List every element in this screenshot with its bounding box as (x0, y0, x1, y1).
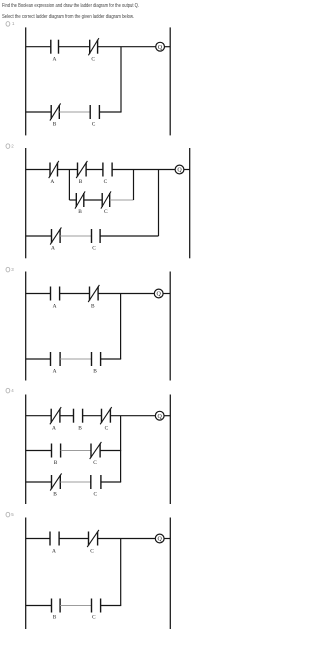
wire C to junction (option 4 rung 2) (100, 450, 121, 452)
svg-text:A: A (52, 548, 56, 554)
wire coil to right rail (option 3) (163, 293, 170, 295)
wire B to C gray (option 5 rung 2) (60, 605, 91, 607)
branch vertical wire down to rung 2 (option 2) (68, 170, 70, 201)
svg-text:Q: Q (158, 414, 163, 420)
wire coil to right rail (option 5) (164, 538, 170, 540)
contact B (NC) option 3 rung 1 (88, 285, 99, 310)
svg-text:A: A (52, 57, 56, 63)
wire rail to contact A (option 1 rung 1) (26, 46, 51, 48)
svg-text:B: B (53, 492, 57, 498)
contact B (NO) option 4 rung 2 (52, 444, 61, 467)
svg-text:C: C (92, 245, 96, 251)
riser vertical wire rung 3 to rung 1 (option 2) (158, 170, 160, 237)
svg-text:A: A (51, 245, 55, 251)
svg-text:Q: Q (158, 45, 163, 51)
contact C (NC) option 4 rung 1 (100, 407, 112, 431)
svg-text:Select the correct ladder diag: Select the correct ladder diagram from t… (2, 14, 134, 20)
contact A (NC) option 4 rung 1 (50, 407, 61, 431)
contact B (NO) option 3 rung 2 (92, 352, 101, 375)
contact B (NC) option 2 rung 1 (76, 161, 87, 185)
radio button option 1 (6, 21, 15, 26)
wire B to C gray (option 1 rung 2) (59, 111, 90, 113)
svg-text:C: C (91, 57, 95, 63)
output coil Q option 4 (155, 411, 164, 420)
wire coil to right rail (option 1) (165, 46, 171, 48)
contact A (NO) option 1 rung 1 (51, 40, 59, 63)
svg-text:Q: Q (157, 292, 162, 298)
radio button option 4 (6, 388, 14, 393)
contact B (NO) option 5 rung 2 (52, 599, 61, 621)
svg-text:B: B (78, 425, 82, 431)
right power rail option 1 (169, 27, 171, 135)
wire C to junction (option 1 rung 2) (99, 111, 121, 113)
left power rail option 2 (25, 148, 27, 258)
wire A to C gray (option 2 rung 3) (60, 235, 91, 237)
wire B to C (option 2 rung 1) (86, 169, 103, 171)
contact A (NC) option 2 rung 3 (50, 227, 61, 251)
svg-text:C: C (92, 122, 96, 128)
radio button option 3 (6, 267, 14, 272)
contact A (NO) option 3 rung 1 (51, 287, 60, 310)
svg-text:B: B (53, 122, 57, 128)
output coil Q option 5 (155, 534, 164, 543)
wire coil to right rail (option 4) (164, 415, 170, 417)
svg-text:B: B (93, 369, 97, 375)
contact C (NO) option 5 rung 2 (92, 599, 101, 621)
wire rail to contact A (option 5 rung 1) (26, 538, 50, 540)
svg-text:A: A (53, 369, 57, 375)
contact A (NO) option 3 rung 2 (51, 352, 61, 375)
contact C (NO) option 2 rung 3 (92, 229, 101, 251)
wire A to B gray (option 3 rung 2) (60, 358, 91, 360)
wire rail to contact A (option 2 rung 1) (26, 169, 50, 171)
wire B to coil (option 3 rung 1) (98, 293, 154, 295)
contact C (NC) option 1 rung 1 (88, 38, 99, 63)
right power rail option 2 (189, 148, 191, 258)
contact B (NC) option 1 rung 2 (50, 103, 61, 127)
wire rail to contact B (option 4 rung 2) (26, 450, 52, 452)
radio button option 5 (6, 512, 14, 517)
wire C to coil (option 5 rung 1) (98, 538, 156, 540)
contact C (NC) option 2 rung 2 (101, 191, 111, 215)
contact C (NO) option 1 rung 2 (90, 105, 99, 128)
svg-text:B: B (79, 179, 83, 185)
wire A to B (option 3 rung 1) (60, 293, 90, 295)
left power rail option 3 (25, 272, 27, 381)
contact B (NC) option 2 rung 2 (75, 191, 85, 215)
junction vertical wire (option 3 branch join) (120, 294, 122, 360)
wire B to C gray (option 4 rung 2) (61, 450, 91, 452)
junction vertical wire (option 5 branch join) (120, 539, 122, 606)
contact B (NC) option 4 rung 3 (50, 473, 61, 497)
output coil Q option 2 (175, 165, 184, 174)
contact C (NO) option 2 rung 1 (103, 163, 112, 186)
svg-text:C: C (92, 615, 96, 621)
wire corner to contact B (option 2 rung 2) (69, 199, 76, 201)
contact C (NC) option 5 rung 1 (87, 530, 99, 555)
left power rail option 4 (25, 395, 27, 505)
svg-text:C: C (90, 548, 94, 554)
wire rail to contact A (option 3 rung 2) (26, 358, 51, 360)
wire rail to contact A (option 3 rung 1) (26, 293, 51, 295)
svg-text:Q: Q (158, 537, 163, 543)
left power rail option 1 (25, 27, 27, 135)
contact B (NO) option 4 rung 1 (74, 409, 83, 432)
output coil Q option 1 (156, 42, 165, 51)
svg-text:B: B (91, 303, 95, 309)
svg-text:C: C (105, 425, 109, 431)
wire C to junction (option 5 rung 2) (101, 605, 122, 607)
wire C to riser (option 2 rung 3) (100, 235, 158, 237)
wire B to junction (option 3 rung 2) (101, 358, 122, 360)
wire A to C (option 1 rung 1) (59, 46, 90, 48)
wire rail to contact A (option 4 rung 1) (26, 415, 52, 417)
right power rail option 4 (169, 395, 171, 505)
wire rail to contact B (option 1 rung 2) (26, 111, 52, 113)
wire A to B (option 4 rung 1) (60, 415, 74, 417)
svg-text:A: A (53, 303, 57, 309)
wire C to riser gray (option 2 rung 2) (110, 199, 134, 201)
wire B to C gray (option 4 rung 3) (60, 481, 91, 483)
wire C to coil (option 1 rung 1) (98, 46, 156, 48)
svg-text:A: A (52, 425, 56, 431)
output coil Q option 3 (154, 289, 163, 298)
svg-text:C: C (104, 179, 108, 185)
contact C (NC) option 4 rung 2 (90, 442, 102, 466)
wire C to coil (option 4 rung 1) (110, 415, 155, 417)
svg-text:B: B (78, 209, 82, 215)
wire coil to right rail (option 2) (184, 169, 190, 171)
junction vertical wire (option 1 branch join) (120, 47, 122, 112)
contact A (NC) option 2 rung 1 (49, 161, 59, 185)
wire A to C (option 5 rung 1) (59, 538, 88, 540)
wire C to junction (option 4 rung 3) (101, 481, 121, 483)
wire rail to contact A (option 2 rung 3) (26, 235, 52, 237)
wire rail to contact B (option 4 rung 3) (26, 481, 52, 483)
right power rail option 3 (169, 272, 171, 381)
svg-text:B: B (54, 460, 58, 466)
wire B to C (option 2 rung 2) (84, 199, 102, 201)
svg-text:C: C (104, 209, 108, 215)
svg-text:A: A (50, 179, 54, 185)
svg-text:C: C (93, 460, 97, 466)
right power rail option 5 (169, 518, 171, 630)
wire rail to contact B (option 5 rung 2) (26, 605, 52, 607)
wire A to B (option 2 rung 1) (58, 169, 78, 171)
contact C (NO) option 4 rung 3 (91, 475, 101, 498)
junction vertical wire (option 4 branch join) (120, 416, 122, 482)
svg-text:C: C (93, 492, 97, 498)
wire C to coil (option 2 rung 1) (112, 169, 175, 171)
contact A (NO) option 5 rung 1 (50, 532, 59, 555)
wire B to C (option 4 rung 1) (83, 415, 102, 417)
left power rail option 5 (25, 518, 27, 630)
svg-text:B: B (53, 615, 57, 621)
svg-text:Q: Q (177, 168, 182, 174)
riser vertical wire rung 2 to rung 1 (option 2) (133, 170, 135, 201)
svg-text:Find the Boolean expression an: Find the Boolean expression and draw the… (2, 3, 139, 9)
radio button option 2 (6, 143, 14, 148)
